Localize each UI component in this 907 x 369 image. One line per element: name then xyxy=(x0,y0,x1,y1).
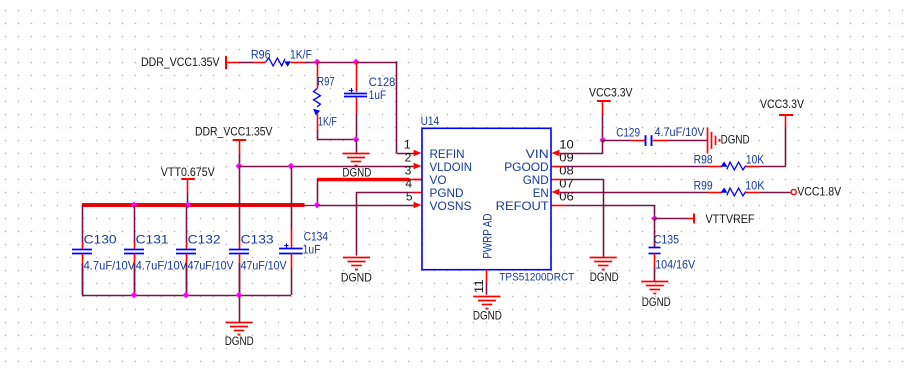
pin name PGOOD xyxy=(504,160,549,174)
pin 1 REFIN arrow xyxy=(414,150,422,157)
svg-text:10K: 10K xyxy=(746,153,764,167)
wire C132 bottom xyxy=(186,264,188,296)
svg-text:10: 10 xyxy=(559,137,574,151)
power port VTTVREF xyxy=(687,212,754,226)
svg-text:11: 11 xyxy=(472,279,486,293)
pin 3 VO stub xyxy=(413,179,422,181)
power port DDR_VCC1.35V (VLDOIN) xyxy=(195,124,273,154)
svg-text:1uF: 1uF xyxy=(369,88,386,102)
resistor R98 xyxy=(694,153,765,170)
junction rail C133/gnd stem xyxy=(236,292,243,299)
resistor R97 xyxy=(313,62,337,131)
svg-text:R97: R97 xyxy=(317,74,335,88)
wire VTT stem xyxy=(187,194,189,206)
svg-text:47uF/10V: 47uF/10V xyxy=(241,259,287,273)
svg-text:4.7uF/10V: 4.7uF/10V xyxy=(84,259,136,273)
svg-text:C128: C128 xyxy=(369,75,396,89)
wire to VTTVREF xyxy=(655,218,688,220)
junction rail C132 xyxy=(183,292,190,299)
junction VLDOIN at C134 xyxy=(288,163,295,170)
junction VTT stem / C132 xyxy=(185,202,192,209)
power port VCC3.3V (R98) xyxy=(760,97,804,128)
svg-text:PWRP AD: PWRP AD xyxy=(481,213,495,258)
pin 8 GND stub xyxy=(552,179,565,181)
resistor R96 xyxy=(251,47,312,66)
svg-text:VO: VO xyxy=(430,173,447,187)
svg-text:4.7uF/10V: 4.7uF/10V xyxy=(136,259,188,273)
svg-text:10K: 10K xyxy=(745,178,765,192)
wire C129 right to DGND xyxy=(668,140,707,142)
junction VIN/C129 xyxy=(599,137,606,144)
ground DGND (PWRPAD) xyxy=(473,297,502,323)
svg-text:REFIN: REFIN xyxy=(430,147,465,161)
wire VOSNS xyxy=(317,205,414,207)
capacitor C128 1uF xyxy=(344,62,396,115)
svg-text:1K/F: 1K/F xyxy=(290,47,312,61)
power port VCC1.8V (circle) xyxy=(791,184,841,198)
svg-text:DGND: DGND xyxy=(642,295,671,309)
wire C135 to DGND xyxy=(654,267,656,281)
junction C131 top on bus xyxy=(131,202,138,209)
pin 10 VIN arrow xyxy=(552,150,560,157)
svg-text:09: 09 xyxy=(559,150,574,164)
pin number 2 xyxy=(405,150,412,164)
wire VO (wide) pin3 xyxy=(317,178,422,181)
svg-text:C131: C131 xyxy=(136,232,169,246)
pin number 1 xyxy=(404,137,411,151)
pin number 10 xyxy=(559,137,574,151)
wire VO riser to bus xyxy=(317,179,319,205)
power port DDR_VCC1.35V (R96 input) xyxy=(141,55,239,69)
junction VLDOIN net at DDR stem xyxy=(236,163,243,170)
pin name EN xyxy=(533,186,549,200)
pin name GND xyxy=(523,173,549,187)
svg-text:PGND: PGND xyxy=(430,186,464,200)
wire C134 top xyxy=(291,166,293,229)
svg-text:R99: R99 xyxy=(694,178,713,192)
svg-text:DGND: DGND xyxy=(473,308,502,322)
svg-text:VOSNS: VOSNS xyxy=(430,199,472,213)
svg-text:06: 06 xyxy=(559,189,574,203)
svg-text:C130: C130 xyxy=(84,232,117,246)
svg-text:DDR_VCC1.35V: DDR_VCC1.35V xyxy=(141,55,220,69)
capacitor C133 47uF/10V xyxy=(229,232,287,272)
wire C130 top xyxy=(82,205,84,243)
pin 6 REFOUT stub xyxy=(552,205,567,207)
capacitor C129 4.7uF/10V xyxy=(616,125,704,146)
wire VTT bus (wide) xyxy=(82,203,318,208)
svg-text:C132: C132 xyxy=(188,232,221,246)
svg-text:VCC1.8V: VCC1.8V xyxy=(797,184,841,198)
svg-text:5: 5 xyxy=(406,189,413,203)
wire DDR_VCC1.35V to R96 xyxy=(239,62,253,64)
wire rail to DGND xyxy=(239,295,241,322)
wire C133 top xyxy=(239,166,241,243)
svg-text:TPS51200DRCT: TPS51200DRCT xyxy=(499,272,574,284)
capacitor C131 4.7uF/10V xyxy=(124,232,187,272)
pin number 11 (vertical) xyxy=(472,279,486,293)
svg-text:1uF: 1uF xyxy=(303,243,321,257)
wire C133 bottom xyxy=(239,264,241,296)
ground DGND (PGND pin4) xyxy=(341,258,372,285)
wire PGND net xyxy=(357,192,414,256)
capacitor C135 104/16V xyxy=(649,232,696,271)
wire C132 top xyxy=(186,205,188,243)
svg-text:3: 3 xyxy=(405,163,412,177)
junction C128/R97 gnd node xyxy=(353,136,360,143)
wire C128 bottom xyxy=(356,114,358,140)
wire C129 left xyxy=(603,140,631,142)
pin 4 PGND stub xyxy=(413,192,422,194)
resistor R99 xyxy=(694,178,765,196)
svg-text:4.7uF/10V: 4.7uF/10V xyxy=(655,125,705,139)
svg-text:DGND: DGND xyxy=(341,271,372,285)
svg-text:1: 1 xyxy=(404,137,411,151)
pin 7 EN arrow xyxy=(552,189,560,196)
wire R97 bottom to C128 bottom node xyxy=(317,130,356,140)
svg-text:08: 08 xyxy=(559,163,574,177)
junction REFOUT/C135/VTTVREF xyxy=(651,215,658,222)
pin number 07 xyxy=(559,176,574,190)
pin name VO xyxy=(430,173,447,187)
svg-text:DGND: DGND xyxy=(225,334,254,348)
svg-text:R98: R98 xyxy=(694,153,713,167)
wire GND pin8 xyxy=(564,179,604,257)
wire REFOUT xyxy=(566,205,655,218)
capacitor C132 47uF/10V xyxy=(176,232,234,272)
svg-text:PGOOD: PGOOD xyxy=(504,160,549,174)
pin number 08 xyxy=(559,163,574,177)
capacitor C130 4.7uF/10V xyxy=(72,232,135,272)
wire ground rail xyxy=(82,264,291,296)
pin name PWRP AD (vertical) xyxy=(481,213,495,258)
svg-text:104/16V: 104/16V xyxy=(655,258,695,272)
wire R98 to VCC3.3V xyxy=(760,128,786,167)
wire REFOUT to C135 xyxy=(654,218,656,241)
svg-text:47uF/10V: 47uF/10V xyxy=(188,259,234,273)
ground DGND (R97/C128) xyxy=(342,154,371,180)
svg-text:C134: C134 xyxy=(304,229,329,243)
capacitor C134 1uF xyxy=(279,229,328,268)
svg-text:4: 4 xyxy=(405,176,412,190)
wire node A to node B xyxy=(317,62,356,64)
wire C131 bottom xyxy=(134,264,136,296)
op-amp U14 TPS51200DRCT body xyxy=(421,114,575,283)
wire C130 bottom xyxy=(82,264,84,296)
svg-text:DGND: DGND xyxy=(342,165,371,179)
svg-text:VTT0.675V: VTT0.675V xyxy=(161,165,215,179)
junction bus / VO / VOSNS xyxy=(314,202,321,209)
wire VCC3.3V stem xyxy=(602,114,604,141)
ground DGND (pin8 GND) xyxy=(590,258,619,284)
svg-text:C129: C129 xyxy=(616,125,640,139)
power port VCC3.3V (VIN) xyxy=(589,86,633,114)
svg-text:VTTVREF: VTTVREF xyxy=(706,212,755,226)
svg-text:U14: U14 xyxy=(421,114,440,128)
svg-text:GND: GND xyxy=(523,173,549,187)
svg-text:VCC3.3V: VCC3.3V xyxy=(760,97,804,111)
pin name VOSNS xyxy=(430,199,472,213)
ground DGND (cap rail) xyxy=(225,323,254,349)
svg-text:VLDOIN: VLDOIN xyxy=(430,160,473,174)
pin 2 VLDOIN arrow xyxy=(414,163,422,170)
ground DGND (C129, horizontal) xyxy=(708,128,750,153)
svg-text:DGND: DGND xyxy=(590,270,619,284)
ground DGND (C135) xyxy=(641,282,671,310)
svg-text:C135: C135 xyxy=(654,232,680,246)
wire VIN corner xyxy=(560,140,603,154)
wire C131 top xyxy=(134,205,136,243)
pin 5 VOSNS arrow xyxy=(414,202,422,209)
wire R99 to VCC1.8V xyxy=(760,192,791,194)
power port VTT0.675V xyxy=(161,165,215,194)
svg-text:VIN: VIN xyxy=(526,147,549,161)
pin name VLDOIN xyxy=(430,160,473,174)
svg-text:EN: EN xyxy=(533,186,549,200)
pin name PGND xyxy=(430,186,464,200)
wire pin11 to DGND xyxy=(486,282,488,294)
svg-text:R96: R96 xyxy=(251,47,271,61)
pin number 06 xyxy=(559,189,574,203)
junction rail C131 xyxy=(131,292,138,299)
pin number 3 xyxy=(405,163,412,177)
svg-text:DGND: DGND xyxy=(721,132,750,146)
pin name REFOUT xyxy=(496,199,550,213)
pin name REFIN xyxy=(430,147,465,161)
pin 11 PWRPAD stub xyxy=(486,270,488,283)
wire PGOOD to R98 xyxy=(564,166,708,168)
svg-text:DDR_VCC1.35V: DDR_VCC1.35V xyxy=(195,124,273,138)
pin name VIN xyxy=(526,147,549,161)
svg-text:2: 2 xyxy=(405,150,412,164)
wire node B to REFIN corner xyxy=(356,61,414,153)
pin number 5 xyxy=(406,189,413,203)
pin 9 PGOOD stub xyxy=(552,166,565,168)
wire gnd node to DGND xyxy=(356,140,358,153)
wire VLDOIN net xyxy=(239,166,414,168)
junction node B (C128 top) xyxy=(353,59,360,66)
pin number 09 xyxy=(559,150,574,164)
wire DDR_VCC1.35V stem xyxy=(239,154,241,166)
wire C134 bottom xyxy=(291,267,293,295)
pin number 4 xyxy=(405,176,412,190)
junction node A (R96/R97) xyxy=(314,59,321,66)
wire R96 to node A xyxy=(305,62,317,64)
svg-text:1K/F: 1K/F xyxy=(318,114,337,128)
svg-text:C133: C133 xyxy=(241,232,274,246)
svg-text:REFOUT: REFOUT xyxy=(496,199,550,213)
wire EN to R99 xyxy=(560,192,708,194)
svg-text:VCC3.3V: VCC3.3V xyxy=(589,86,633,100)
svg-text:07: 07 xyxy=(559,176,574,190)
